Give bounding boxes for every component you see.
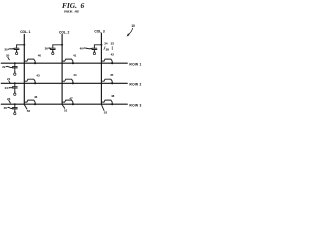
svg-text:52: 52 <box>104 111 108 115</box>
svg-text:30: 30 <box>4 48 8 52</box>
svg-text:33: 33 <box>111 42 115 46</box>
svg-text:COL. 3: COL. 3 <box>94 29 104 33</box>
svg-text:6: 6 <box>81 1 85 10</box>
svg-text:PRIOR: PRIOR <box>64 10 73 14</box>
svg-text:38: 38 <box>106 47 110 51</box>
svg-text:50: 50 <box>27 109 31 113</box>
svg-text:ROW 2: ROW 2 <box>129 83 141 87</box>
svg-text:44: 44 <box>73 73 77 77</box>
svg-text:42: 42 <box>111 53 115 57</box>
svg-text:36: 36 <box>45 47 49 51</box>
svg-text:46: 46 <box>34 95 38 99</box>
svg-text:51: 51 <box>64 108 68 112</box>
svg-text:43: 43 <box>36 73 40 77</box>
svg-text:47: 47 <box>69 96 73 100</box>
svg-text:40: 40 <box>80 47 84 51</box>
svg-text:41: 41 <box>73 53 77 57</box>
svg-text:34: 34 <box>104 42 108 46</box>
svg-text:ROW 3: ROW 3 <box>129 104 141 108</box>
svg-text:24: 24 <box>5 86 9 90</box>
svg-text:48: 48 <box>111 94 115 98</box>
svg-text:10: 10 <box>131 24 135 28</box>
svg-text:26: 26 <box>4 106 8 110</box>
svg-text:40: 40 <box>38 54 42 58</box>
svg-text:ART: ART <box>74 10 80 14</box>
svg-text:COL. 1: COL. 1 <box>20 30 30 34</box>
svg-text:ROW 1: ROW 1 <box>129 62 141 66</box>
svg-text:COL. 2: COL. 2 <box>59 30 69 34</box>
svg-text:22: 22 <box>2 65 6 69</box>
svg-text:45: 45 <box>110 73 114 77</box>
